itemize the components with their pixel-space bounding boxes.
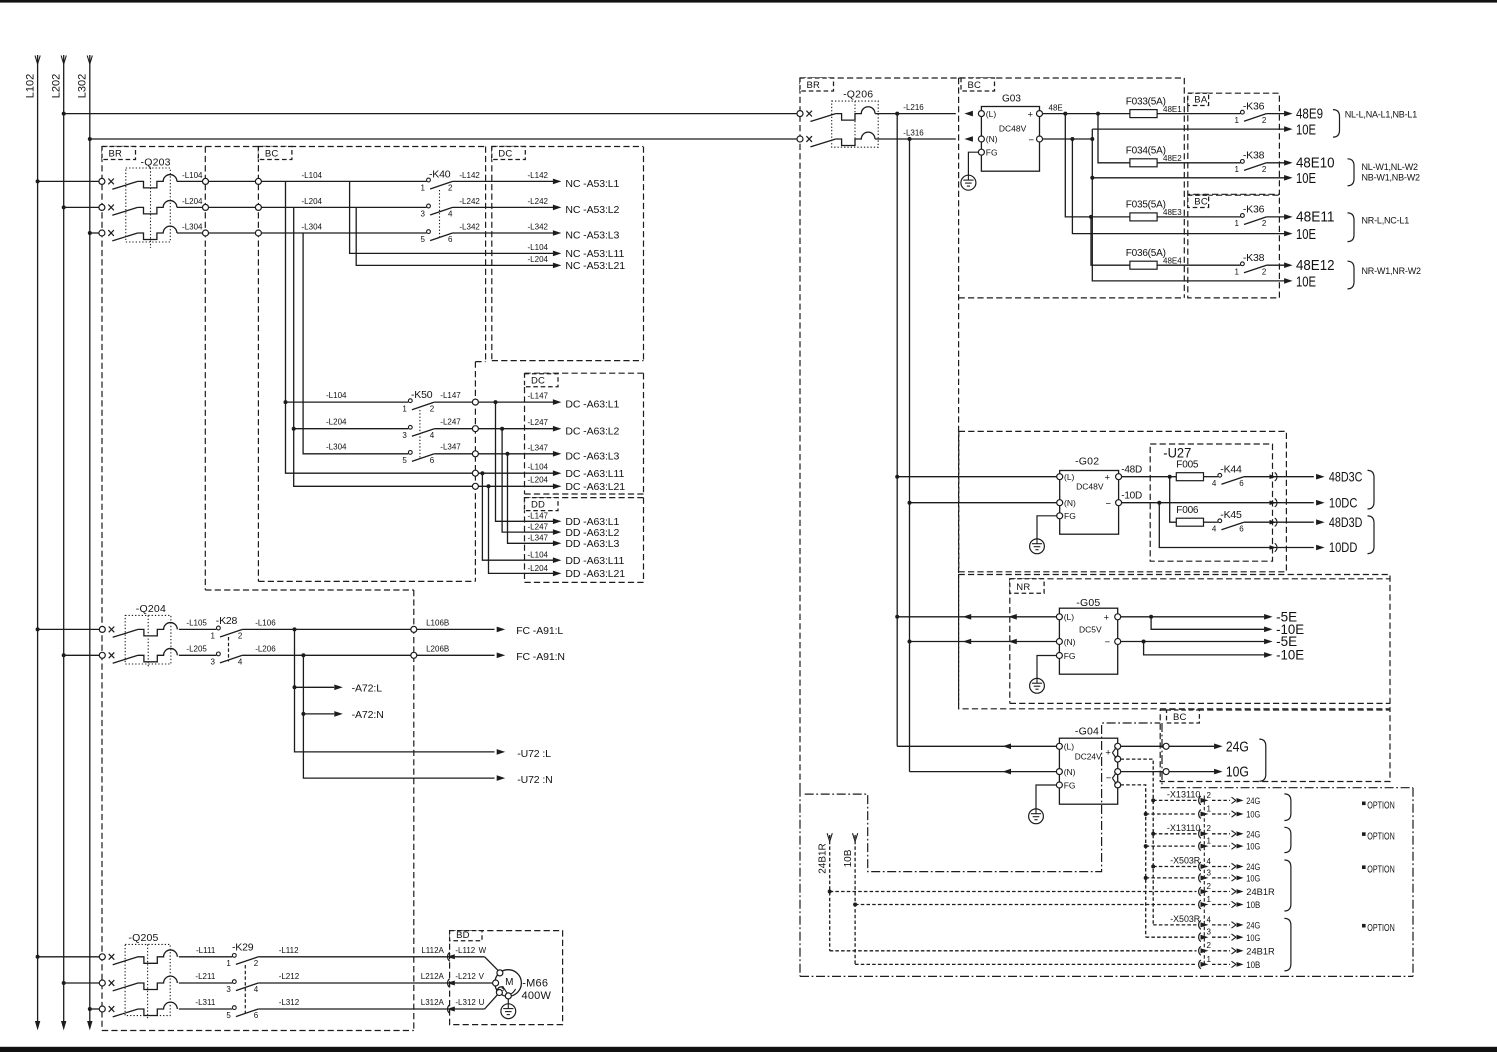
svg-text:10G: 10G [1246, 842, 1260, 853]
wire DD-A63:L3 branch [508, 454, 554, 544]
svg-text:FG: FG [986, 147, 998, 157]
svg-text:DD -A63:L21: DD -A63:L21 [565, 568, 625, 580]
svg-text:6: 6 [254, 1011, 259, 1020]
svg-text:V: V [479, 972, 485, 981]
svg-text:10B: 10B [1246, 900, 1260, 911]
svg-text:NC -A53:L1: NC -A53:L1 [565, 178, 619, 190]
wire DD-A63:L2 branch [502, 429, 553, 532]
svg-text:2: 2 [1262, 165, 1267, 174]
label DD [525, 498, 559, 511]
svg-text:24G: 24G [1246, 829, 1260, 840]
svg-text:DD -A63:L11: DD -A63:L11 [565, 555, 624, 567]
svg-text:-L105: -L105 [186, 618, 207, 627]
svg-text:-L312: -L312 [279, 998, 300, 1007]
svg-text:DC -A63:L1: DC -A63:L1 [565, 399, 619, 411]
svg-text:-L247: -L247 [528, 523, 549, 532]
svg-text:-L147: -L147 [440, 391, 461, 400]
circuit breaker Q206 [797, 89, 956, 148]
svg-text:4: 4 [1207, 857, 1212, 866]
svg-text:NC -A53:L11: NC -A53:L11 [565, 248, 624, 260]
output NC-A53 L1-L3 [553, 178, 620, 242]
output 48E9 [1284, 106, 1323, 122]
svg-text:-L111: -L111 [196, 946, 216, 955]
svg-text:48D3D: 48D3D [1329, 514, 1363, 530]
relay contact -K38 row 48E10 [1234, 150, 1284, 174]
svg-text:-L211: -L211 [195, 972, 215, 981]
svg-text:4: 4 [430, 431, 435, 440]
svg-text:-K50: -K50 [411, 389, 433, 401]
svg-text:DC48V: DC48V [1076, 481, 1104, 491]
svg-text:24B1R: 24B1R [818, 843, 829, 874]
svg-text:-10D: -10D [1121, 491, 1142, 502]
svg-text:OPTION: OPTION [1367, 831, 1395, 842]
connector pin 1 net 10G [1146, 804, 1261, 820]
relay contact -K38 row 48E12 [1234, 252, 1284, 276]
svg-text:-G04: -G04 [1075, 726, 1099, 738]
svg-text:3: 3 [226, 985, 231, 994]
output 10G [1121, 765, 1249, 781]
svg-text:-X503R: -X503R [1170, 856, 1200, 867]
label DC [492, 147, 526, 160]
svg-text:FC -A91:L: FC -A91:L [516, 625, 563, 637]
svg-text:2: 2 [238, 632, 243, 641]
bottom border bar [0, 1047, 1497, 1052]
net 24B1R [818, 833, 1197, 951]
svg-text:4: 4 [448, 210, 453, 219]
svg-text:DD -A63:L3: DD -A63:L3 [565, 538, 619, 550]
brace 24G/10G [1259, 739, 1266, 781]
output -10E lower [1144, 642, 1305, 663]
svg-text:-K36: -K36 [1243, 100, 1265, 112]
connector pin 3 net 10G [1146, 868, 1261, 884]
svg-text:1: 1 [1234, 267, 1239, 276]
svg-text:-L104: -L104 [528, 551, 549, 560]
output -U72:L [497, 749, 506, 755]
svg-text:-G02: -G02 [1075, 456, 1099, 468]
wire bus L (y=113.6) from L202 to -Q206 [64, 113, 800, 115]
svg-text:DC5V: DC5V [1079, 624, 1102, 634]
power supply G04 [897, 726, 1120, 805]
output 24G [1121, 739, 1249, 755]
svg-text:48E3: 48E3 [1163, 208, 1182, 217]
svg-text:-L104: -L104 [326, 391, 347, 400]
ground motor [501, 999, 516, 1019]
bus L302 [89, 55, 91, 1022]
wire FC-A91:N [242, 644, 565, 663]
svg-text:NR-W1,NR-W2: NR-W1,NR-W2 [1362, 266, 1421, 276]
output 48D3D [1270, 514, 1363, 530]
svg-text:DC -A63:L3: DC -A63:L3 [565, 450, 619, 462]
wire 10E row2 [1092, 177, 1285, 179]
svg-text:3: 3 [402, 431, 407, 440]
wire to F035 [1065, 114, 1130, 217]
enclosure box BC (right top) [959, 78, 1185, 298]
svg-text:FG: FG [1064, 651, 1076, 661]
svg-text:-L106: -L106 [255, 618, 276, 627]
svg-text:1: 1 [1207, 804, 1212, 813]
svg-text:2: 2 [1262, 219, 1267, 228]
svg-text:OPTION: OPTION [1367, 864, 1395, 875]
svg-text:1: 1 [1207, 837, 1212, 846]
wires K50 rows [286, 391, 554, 457]
ground G02 [1030, 516, 1057, 554]
svg-text:-K36: -K36 [1243, 204, 1265, 216]
svg-text:-L204: -L204 [528, 564, 549, 573]
svg-text:2: 2 [1207, 824, 1212, 833]
svg-text:−: − [1105, 637, 1111, 648]
svg-text:-K44: -K44 [1220, 464, 1242, 476]
relay contact -K36 row 48E9 [1234, 100, 1284, 124]
box BC (G04 outputs) [1160, 710, 1390, 782]
svg-text:-K29: -K29 [232, 942, 254, 954]
svg-text:BA: BA [1194, 95, 1208, 106]
svg-text:-A72:L: -A72:L [352, 683, 383, 695]
svg-text:2: 2 [1207, 882, 1212, 891]
svg-text:-Q203: -Q203 [141, 157, 171, 169]
svg-text:48E12: 48E12 [1296, 258, 1335, 274]
svg-text:10DD: 10DD [1329, 539, 1358, 555]
wire NC-A53:L21 branch [356, 207, 553, 265]
svg-text:3: 3 [500, 986, 504, 993]
connector column line [1203, 796, 1205, 965]
svg-text:-L112: -L112 [279, 946, 299, 955]
svg-text:L102: L102 [24, 74, 36, 98]
contactor K50 [402, 389, 434, 465]
svg-text:1: 1 [1234, 165, 1239, 174]
bus L102 [37, 55, 39, 1022]
svg-text:2: 2 [448, 184, 453, 193]
wire DD-A63:L21 branch [489, 486, 554, 573]
svg-text:-L104: -L104 [182, 171, 203, 180]
output 48E12 [1284, 258, 1334, 274]
svg-text:6: 6 [1239, 524, 1244, 533]
svg-text:24G: 24G [1246, 921, 1260, 932]
svg-text:(N): (N) [1064, 767, 1076, 777]
output DC-A63 L1-L3 [553, 399, 620, 463]
box DC upper [491, 147, 493, 360]
svg-text:F034(5A): F034(5A) [1126, 146, 1166, 157]
inner dash-dot boundary [805, 723, 1162, 872]
wire 10E row3 [1072, 139, 1285, 234]
svg-text:DD: DD [531, 500, 545, 511]
circuit breaker Q205 [36, 932, 178, 1019]
svg-text:BD: BD [456, 930, 470, 941]
svg-text:10E: 10E [1296, 227, 1316, 243]
svg-text:10G: 10G [1226, 765, 1249, 781]
svg-text:-X13110: -X13110 [1167, 790, 1201, 801]
output -10E upper [1151, 617, 1304, 637]
wire NC-A53:L11 branch [350, 181, 554, 253]
svg-text:(L): (L) [986, 109, 997, 119]
svg-text:4: 4 [1212, 479, 1217, 488]
svg-text:-X13110: -X13110 [1167, 823, 1201, 834]
contactor K29 [179, 942, 259, 1021]
svg-text:(N): (N) [1064, 498, 1076, 508]
box U27 [1150, 444, 1272, 561]
svg-text:10G: 10G [1246, 810, 1260, 821]
power supply G03 [964, 94, 1042, 172]
svg-text:DC: DC [498, 149, 512, 160]
svg-text:NR: NR [1016, 582, 1030, 593]
svg-text:-L247: -L247 [440, 418, 461, 427]
svg-text:-L347: -L347 [528, 443, 549, 452]
svg-text:10E: 10E [1296, 274, 1316, 290]
svg-text:-10E: -10E [1276, 647, 1304, 663]
box DC lower [525, 372, 644, 374]
svg-text:-L205: -L205 [186, 644, 207, 653]
svg-text:4: 4 [1212, 524, 1217, 533]
svg-text:2: 2 [254, 959, 259, 968]
output -5E lower [1121, 633, 1298, 649]
wire -U72:N drop [303, 655, 494, 778]
svg-text:-L104: -L104 [302, 171, 323, 180]
relay contact -K36 row 48E11 [1234, 204, 1284, 228]
circuit breaker Q203 [99, 157, 209, 249]
fuse F006 [1176, 505, 1218, 526]
svg-text:3: 3 [421, 210, 426, 219]
svg-text:-L304: -L304 [182, 223, 203, 232]
svg-text:-K38: -K38 [1243, 252, 1265, 264]
net 10B [843, 833, 1196, 964]
svg-text:3: 3 [1207, 928, 1212, 937]
svg-text:1: 1 [1207, 895, 1212, 904]
svg-text:-L311: -L311 [195, 998, 215, 1007]
svg-text:24B1R: 24B1R [1246, 946, 1275, 957]
svg-text:FG: FG [1064, 780, 1076, 790]
svg-text:2: 2 [1207, 791, 1212, 800]
svg-text:F006: F006 [1176, 505, 1199, 516]
output -U72:N [497, 775, 506, 781]
svg-text:-U72 :L: -U72 :L [517, 748, 551, 760]
output 48E10 [1284, 156, 1334, 172]
connector pin 3 net 10G [1146, 928, 1261, 944]
ground G05 [1030, 656, 1057, 694]
wire bus N (y=139) from L302 to -Q206 [90, 138, 800, 140]
wires -L104/-L204/-L304 to BC [208, 171, 322, 236]
svg-text:-L204: -L204 [302, 197, 323, 206]
svg-text:L312A: L312A [421, 998, 445, 1007]
svg-text:48E: 48E [1049, 103, 1063, 112]
svg-text:-L312: -L312 [455, 998, 476, 1007]
svg-text:-A72:N: -A72:N [352, 709, 384, 721]
fuse F035 [1126, 200, 1241, 221]
svg-text:1: 1 [402, 404, 407, 413]
svg-text:FG: FG [1064, 511, 1076, 521]
svg-text:-K40: -K40 [429, 168, 451, 180]
contactor K40 [261, 168, 453, 244]
svg-text:FC -A91:N: FC -A91:N [516, 651, 565, 663]
svg-text:48E10: 48E10 [1296, 156, 1335, 172]
svg-text:NB-W1,NB-W2: NB-W1,NB-W2 [1362, 173, 1420, 183]
svg-text:-L247: -L247 [528, 418, 549, 427]
svg-text:NC -A53:L3: NC -A53:L3 [565, 230, 619, 242]
box NR inner [1010, 579, 1390, 704]
connector pin 1 net 10B [1199, 955, 1261, 971]
wire to F006 [1170, 477, 1177, 523]
svg-text:5: 5 [226, 1011, 231, 1020]
svg-text:(L): (L) [1064, 612, 1075, 622]
svg-text:-K28: -K28 [216, 615, 238, 627]
svg-text:BR: BR [109, 149, 123, 160]
relay contact K45 [1212, 509, 1314, 533]
svg-text:48E11: 48E11 [1296, 210, 1335, 226]
svg-text:L206B: L206B [426, 644, 449, 653]
svg-text:NL-W1,NL-W2: NL-W1,NL-W2 [1362, 162, 1418, 172]
group braces 48D [1368, 470, 1375, 553]
svg-text:24G: 24G [1246, 862, 1260, 873]
bus L202 [63, 55, 65, 1022]
connector pin 2 net 24B1R [1199, 941, 1275, 957]
svg-text:G03: G03 [1002, 94, 1021, 105]
svg-text:DC -A63:L2: DC -A63:L2 [565, 425, 619, 437]
wire 48E bus [1042, 113, 1130, 115]
svg-text:+: + [1105, 473, 1111, 484]
svg-text:1: 1 [1234, 116, 1239, 125]
svg-text:-L242: -L242 [459, 197, 480, 206]
svg-text:24G: 24G [1226, 739, 1249, 755]
svg-text:48E1: 48E1 [1163, 105, 1182, 114]
svg-text:NR-L,NC-L1: NR-L,NC-L1 [1362, 215, 1410, 225]
box DD [525, 497, 644, 499]
svg-text:F033(5A): F033(5A) [1126, 96, 1166, 107]
circuit breaker Q204 [36, 603, 178, 668]
connector pin 2 net 24G [1153, 791, 1260, 807]
svg-text:DC24V: DC24V [1075, 751, 1102, 761]
motor M66 [447, 957, 551, 1009]
fuse F005 [1122, 459, 1218, 480]
output -5E [1121, 609, 1298, 625]
group braces 48E [1333, 110, 1354, 289]
enclosure box BR (right) [800, 78, 959, 788]
svg-text:DD -A63:L2: DD -A63:L2 [565, 527, 619, 539]
svg-text:1: 1 [210, 632, 215, 641]
svg-text:1: 1 [1207, 955, 1212, 964]
svg-text:24B1R: 24B1R [1246, 887, 1275, 898]
svg-text:-L316: -L316 [903, 129, 924, 138]
svg-text:-L212: -L212 [279, 972, 300, 981]
connector pin 1 net 10B [1199, 895, 1261, 911]
svg-text:10B: 10B [1246, 960, 1260, 971]
svg-text:BC: BC [1173, 712, 1187, 723]
label DC 2 [525, 374, 559, 387]
svg-text:-L212: -L212 [455, 972, 476, 981]
svg-text:-Q205: -Q205 [128, 932, 158, 944]
svg-text:-L112: -L112 [455, 946, 475, 955]
svg-text:10G: 10G [1246, 933, 1260, 944]
svg-text:-G05: -G05 [1076, 597, 1100, 609]
svg-text:L112A: L112A [421, 946, 444, 955]
output 48E11 [1284, 210, 1334, 226]
svg-text:DC -A63:L21: DC -A63:L21 [565, 481, 625, 493]
enclosure box G02 section [959, 431, 1287, 571]
fuse F036 [1126, 248, 1241, 269]
fuse F033 [1126, 96, 1241, 117]
svg-text:NL-L,NA-L1,NB-L1: NL-L,NA-L1,NB-L1 [1345, 110, 1418, 120]
box BA [1188, 93, 1280, 194]
svg-text:F005: F005 [1176, 459, 1199, 470]
svg-text:10B: 10B [843, 849, 854, 867]
enclosure box BR (left) [101, 147, 103, 1031]
svg-text:OPTION: OPTION [1367, 923, 1395, 934]
wire 10E row1 [1092, 128, 1285, 130]
svg-text:6: 6 [1239, 479, 1244, 488]
svg-text:-X503R: -X503R [1170, 914, 1200, 925]
label BR [102, 147, 136, 160]
contactor K28 [179, 615, 276, 667]
connector pin 2 net 24G [1153, 824, 1260, 840]
svg-text:M: M [505, 977, 513, 988]
svg-text:L202: L202 [51, 74, 63, 98]
svg-text:-L304: -L304 [326, 443, 347, 452]
wire -U72:L drop [295, 629, 495, 752]
power supply G05 [895, 597, 1120, 674]
relay contact K44 [1212, 464, 1314, 488]
ground G03 [961, 152, 979, 190]
connector pin 4 net 24G [1153, 915, 1260, 931]
wire 10D [1122, 501, 1314, 505]
svg-text:-M66: -M66 [522, 977, 548, 989]
svg-text:-L204: -L204 [182, 197, 203, 206]
svg-text:10E: 10E [1296, 171, 1316, 187]
svg-text:L106B: L106B [426, 618, 449, 627]
connector pin 2 net 24B1R [1199, 882, 1275, 898]
svg-text:BR: BR [807, 80, 821, 91]
output -A72:N [301, 709, 383, 721]
svg-text:-U27: -U27 [1163, 445, 1191, 460]
connector pin 1 net 10G [1146, 837, 1261, 853]
svg-text:-U72 :N: -U72 :N [517, 774, 552, 786]
wire to F034 [1098, 114, 1130, 163]
svg-text:BC: BC [1194, 197, 1208, 208]
svg-text:-L347: -L347 [528, 534, 549, 543]
wire L drop to G02/G05/G04 [896, 114, 898, 747]
wire FC-A91:L [242, 618, 563, 637]
svg-text:1: 1 [1234, 219, 1239, 228]
svg-text:4: 4 [1207, 915, 1212, 924]
svg-text:-L147: -L147 [528, 392, 549, 401]
svg-text:F035(5A): F035(5A) [1126, 200, 1166, 211]
svg-text:NC -A53:L2: NC -A53:L2 [565, 204, 619, 216]
enclosure box BC (left) [257, 147, 259, 582]
wire -L304 drop to K50 [303, 233, 408, 454]
svg-text:-L147: -L147 [528, 512, 549, 521]
svg-text:-L304: -L304 [302, 223, 323, 232]
svg-text:6: 6 [430, 456, 435, 465]
svg-text:NC -A53:L21: NC -A53:L21 [565, 260, 625, 272]
svg-text:L302: L302 [77, 74, 89, 98]
svg-text:−: − [1106, 773, 1112, 784]
output 10DD [1270, 539, 1358, 555]
svg-text:-L204: -L204 [528, 476, 549, 485]
net labels 48E [1345, 110, 1421, 277]
OPTION labels [1362, 801, 1395, 934]
svg-text:400W: 400W [522, 990, 552, 1002]
svg-text:DC: DC [531, 376, 545, 387]
svg-text:4: 4 [254, 985, 259, 994]
wires DC-A63 L11/L21 rows [472, 463, 625, 493]
svg-text:4: 4 [238, 658, 243, 667]
fuse F034 [1126, 146, 1241, 167]
svg-text:-L342: -L342 [528, 223, 549, 232]
svg-text:-48D: -48D [1121, 465, 1142, 476]
svg-text:48E4: 48E4 [1163, 256, 1182, 265]
output DD-A63 labels [528, 512, 626, 581]
svg-text:+: + [1105, 747, 1111, 758]
svg-text:BC: BC [265, 149, 279, 160]
box BD [450, 930, 563, 1025]
wire DD-A63:L11 branch [482, 473, 553, 560]
wire DD-A63:L1 branch [496, 402, 554, 521]
